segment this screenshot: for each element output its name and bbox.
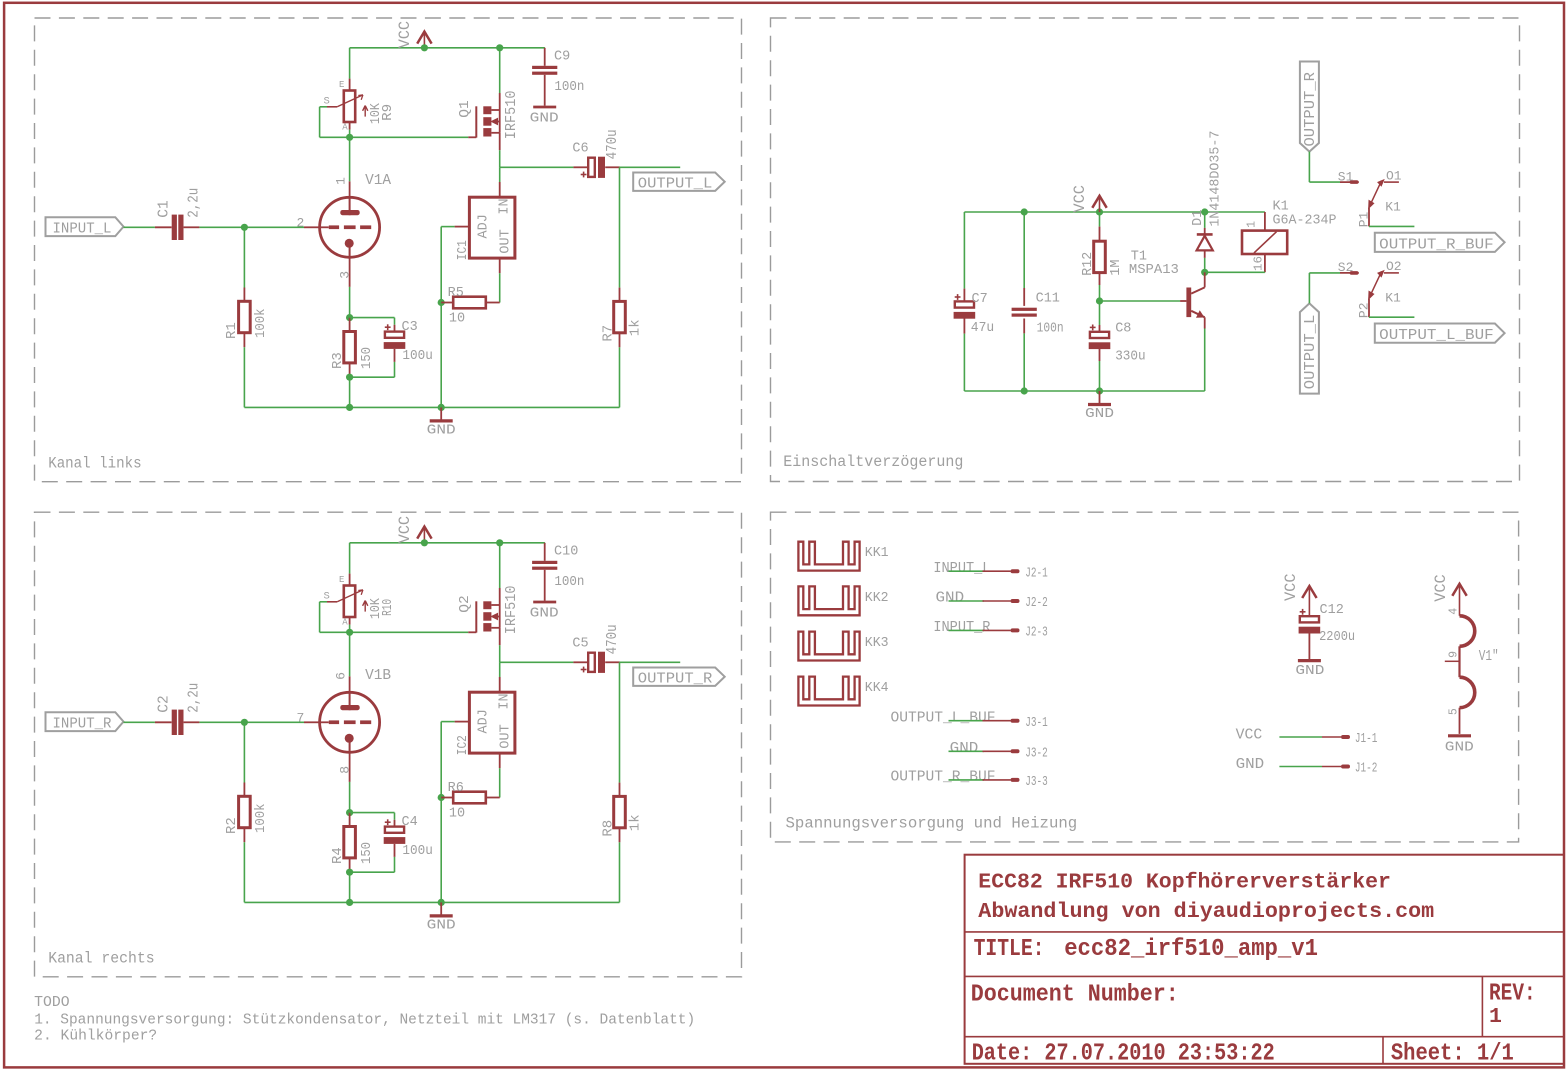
svg-text:Spannungsversorgung und Heizun: Spannungsversorgung und Heizung: [786, 815, 1078, 833]
svg-text:VCC: VCC: [1282, 574, 1300, 602]
svg-text:VCC: VCC: [396, 21, 414, 49]
svg-text:OUTPUT_L_BUF: OUTPUT_L_BUF: [891, 710, 996, 726]
svg-text:GND: GND: [530, 606, 559, 621]
svg-text:A: A: [342, 122, 348, 132]
svg-text:ADJ: ADJ: [477, 709, 492, 733]
svg-text:KK3: KK3: [865, 636, 889, 651]
svg-text:TODO: TODO: [34, 995, 69, 1011]
svg-text:C6: C6: [572, 142, 588, 157]
svg-text:Abwandlung von diyaudioproject: Abwandlung von diyaudioprojects.com: [978, 900, 1434, 924]
svg-text:E: E: [339, 80, 344, 90]
svg-text:R3: R3: [330, 352, 346, 369]
svg-text:IRF510: IRF510: [504, 91, 520, 140]
svg-text:3: 3: [338, 271, 353, 279]
svg-text:330u: 330u: [1115, 350, 1145, 365]
svg-text:OUTPUT_R: OUTPUT_R: [1303, 72, 1319, 147]
svg-text:REV:: REV:: [1489, 981, 1536, 1008]
svg-text:100u: 100u: [402, 349, 432, 364]
svg-text:C7: C7: [972, 292, 988, 307]
svg-text:2,2u: 2,2u: [187, 188, 203, 218]
svg-text:INPUT_R: INPUT_R: [53, 716, 112, 732]
svg-text:J2-1: J2-1: [1025, 566, 1048, 581]
svg-text:D1: D1: [1191, 210, 1206, 226]
svg-text:J1-2: J1-2: [1355, 762, 1378, 777]
svg-text:S2: S2: [1338, 260, 1354, 275]
svg-text:O1: O1: [1386, 168, 1402, 183]
svg-text:J2-3: J2-3: [1025, 626, 1048, 641]
svg-text:TITLE:: TITLE:: [974, 936, 1045, 963]
svg-text:GND: GND: [1445, 740, 1474, 755]
svg-text:Kanal rechts: Kanal rechts: [48, 950, 155, 968]
svg-text:1M: 1M: [1109, 259, 1124, 275]
svg-text:2: 2: [297, 216, 305, 231]
svg-text:1: 1: [1245, 221, 1258, 228]
svg-text:OUT: OUT: [498, 724, 513, 748]
svg-text:VCC: VCC: [396, 516, 414, 544]
svg-text:Q1: Q1: [457, 100, 473, 118]
svg-text:J3-1: J3-1: [1025, 716, 1048, 731]
svg-text:470u: 470u: [605, 129, 621, 159]
svg-text:1N4148DO35-7: 1N4148DO35-7: [1209, 131, 1224, 227]
svg-text:100n: 100n: [554, 575, 584, 590]
svg-text:K1: K1: [1385, 200, 1401, 215]
svg-text:R4: R4: [330, 847, 346, 864]
svg-text:KK4: KK4: [865, 681, 889, 696]
svg-text:VCC: VCC: [1432, 574, 1450, 602]
svg-text:10: 10: [449, 312, 465, 327]
svg-text:R5: R5: [448, 286, 464, 301]
svg-text:100k: 100k: [253, 309, 269, 339]
svg-text:2,2u: 2,2u: [187, 683, 203, 713]
svg-text:J3-3: J3-3: [1025, 775, 1048, 790]
svg-text:IN: IN: [497, 693, 512, 709]
svg-text:Kanal links: Kanal links: [48, 455, 142, 473]
svg-text:47u: 47u: [971, 321, 994, 336]
svg-text:GND: GND: [950, 741, 979, 757]
svg-text:C12: C12: [1320, 603, 1344, 618]
svg-text:V1B: V1B: [365, 667, 391, 684]
svg-text:Einschaltverzögerung: Einschaltverzögerung: [783, 453, 963, 471]
svg-text:S: S: [324, 95, 330, 107]
svg-text:R9: R9: [381, 104, 396, 121]
svg-text:IC1: IC1: [456, 240, 471, 260]
svg-text:GND: GND: [1236, 756, 1265, 773]
svg-text:R6: R6: [448, 781, 464, 796]
svg-text:C10: C10: [554, 544, 578, 559]
svg-text:E: E: [339, 575, 344, 585]
svg-text:OUTPUT_L: OUTPUT_L: [1303, 315, 1319, 390]
svg-text:O2: O2: [1386, 259, 1402, 274]
svg-text:1: 1: [1489, 1005, 1502, 1029]
svg-text:100n: 100n: [1037, 322, 1064, 337]
svg-text:150: 150: [359, 347, 375, 369]
svg-text:KK2: KK2: [865, 591, 889, 606]
svg-text:1. Spannungsversorgung: Stützk: 1. Spannungsversorgung: Stützkondensator…: [34, 1012, 695, 1028]
svg-text:K1: K1: [1385, 290, 1401, 305]
svg-text:J2-2: J2-2: [1025, 596, 1048, 611]
svg-text:C5: C5: [572, 637, 588, 652]
svg-text:C4: C4: [402, 815, 418, 830]
svg-text:150: 150: [359, 842, 375, 864]
svg-text:OUT: OUT: [498, 229, 513, 253]
svg-text:OUTPUT_L_BUF: OUTPUT_L_BUF: [1379, 328, 1494, 344]
svg-text:ecc82_irf510_amp_v1: ecc82_irf510_amp_v1: [1064, 936, 1318, 963]
svg-text:INPUT_L: INPUT_L: [933, 561, 990, 577]
svg-text:ECC82 IRF510 Kopfhörerverstärk: ECC82 IRF510 Kopfhörerverstärker: [978, 870, 1391, 894]
svg-text:C8: C8: [1115, 321, 1131, 336]
svg-text:1: 1: [333, 177, 348, 185]
svg-text:S1: S1: [1338, 169, 1354, 184]
svg-text:V1": V1": [1479, 649, 1499, 665]
svg-text:GND: GND: [1085, 407, 1114, 422]
svg-text:GND: GND: [1295, 664, 1324, 679]
svg-text:7: 7: [297, 711, 305, 726]
svg-text:VCC: VCC: [1071, 185, 1089, 213]
svg-text:OUTPUT_R_BUF: OUTPUT_R_BUF: [891, 770, 996, 786]
svg-text:Document Number:: Document Number:: [971, 982, 1179, 1009]
svg-text:GND: GND: [530, 111, 559, 126]
svg-text:C1: C1: [156, 200, 172, 217]
svg-text:1k: 1k: [628, 319, 644, 336]
svg-text:470u: 470u: [605, 624, 621, 654]
svg-text:8: 8: [338, 766, 353, 774]
svg-text:R12: R12: [1081, 252, 1096, 276]
svg-text:INPUT_L: INPUT_L: [53, 221, 112, 237]
svg-text:V1A: V1A: [365, 172, 391, 189]
svg-text:IN: IN: [497, 198, 512, 214]
svg-text:P1: P1: [1357, 211, 1372, 227]
svg-text:INPUT_R: INPUT_R: [933, 620, 990, 636]
svg-text:9: 9: [1448, 651, 1461, 658]
svg-text:R8: R8: [600, 820, 616, 837]
svg-text:6: 6: [333, 672, 348, 680]
svg-text:4: 4: [1448, 608, 1461, 615]
svg-text:IRF510: IRF510: [504, 586, 520, 635]
svg-text:R10: R10: [381, 599, 396, 616]
svg-text:J3-2: J3-2: [1025, 747, 1048, 762]
svg-text:5: 5: [1448, 708, 1461, 715]
svg-text:G6A-234P: G6A-234P: [1273, 213, 1337, 228]
svg-text:MSPA13: MSPA13: [1129, 263, 1179, 278]
svg-text:OUTPUT_R_BUF: OUTPUT_R_BUF: [1379, 237, 1494, 253]
svg-text:J1-1: J1-1: [1355, 732, 1378, 747]
svg-text:C3: C3: [402, 320, 418, 335]
svg-text:KK1: KK1: [865, 546, 889, 561]
svg-text:GND: GND: [936, 591, 965, 607]
svg-text:GND: GND: [427, 424, 456, 439]
svg-text:2200u: 2200u: [1319, 630, 1355, 645]
svg-text:100n: 100n: [554, 80, 584, 95]
svg-text:ADJ: ADJ: [477, 214, 492, 238]
svg-text:R1: R1: [224, 322, 240, 339]
svg-text:VCC: VCC: [1236, 727, 1263, 744]
svg-text:C9: C9: [554, 49, 570, 64]
svg-text:100k: 100k: [253, 804, 269, 834]
svg-text:P2: P2: [1357, 302, 1372, 318]
svg-text:OUTPUT_R: OUTPUT_R: [638, 671, 713, 687]
svg-text:A: A: [342, 617, 348, 627]
svg-text:C2: C2: [156, 695, 172, 712]
svg-text:100u: 100u: [402, 844, 432, 859]
svg-text:Sheet: 1/1: Sheet: 1/1: [1391, 1041, 1514, 1068]
svg-text:1k: 1k: [628, 814, 644, 831]
svg-text:10: 10: [449, 807, 465, 822]
svg-text:C11: C11: [1036, 291, 1060, 306]
svg-text:Date: 27.07.2010 23:53:22: Date: 27.07.2010 23:53:22: [972, 1041, 1275, 1068]
svg-text:S: S: [324, 590, 330, 602]
svg-text:Q2: Q2: [457, 595, 473, 613]
svg-text:GND: GND: [427, 919, 456, 934]
svg-text:16: 16: [1253, 256, 1266, 271]
svg-text:2. Kühlkörper?: 2. Kühlkörper?: [34, 1028, 157, 1044]
svg-text:R7: R7: [600, 325, 616, 342]
svg-text:OUTPUT_L: OUTPUT_L: [638, 176, 713, 192]
svg-text:IC2: IC2: [456, 735, 471, 755]
svg-text:R2: R2: [224, 817, 240, 834]
